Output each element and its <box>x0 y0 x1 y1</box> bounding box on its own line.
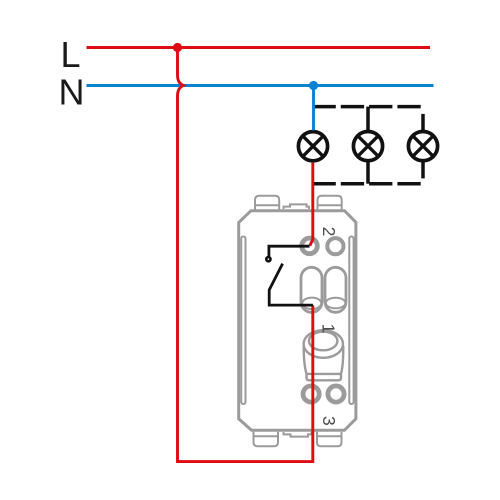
svg-text:1: 1 <box>319 324 339 334</box>
svg-text:3: 3 <box>319 416 339 426</box>
svg-text:N: N <box>59 72 85 113</box>
svg-text:2: 2 <box>319 227 339 237</box>
svg-text:L: L <box>61 34 81 75</box>
